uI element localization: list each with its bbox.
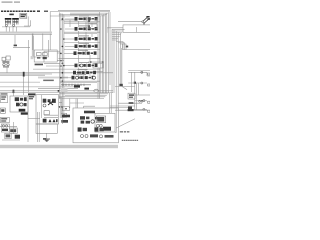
box J dark: [15, 135, 20, 139]
wire verticals x37-40: [37, 112, 39, 142]
wire left horizontal: [13, 46, 30, 48]
wire left branch: [14, 35, 16, 47]
wire M1 drop: [6, 68, 8, 73]
box lamps group1: [128, 70, 150, 72]
transistor row TR5: [64, 51, 97, 55]
junction blob x13: [13, 90, 15, 93]
wire module corner y16: [50, 15, 70, 17]
wire under transistors: [2, 26, 30, 28]
wire y88: [38, 87, 78, 89]
wire gray band mid: [38, 77, 68, 79]
central module frame left verticals: [59, 12, 64, 118]
bottom gray band: [0, 145, 118, 148]
regulator box right: [128, 93, 135, 99]
wire verticals under switches: [132, 72, 139, 110]
wire y110.2 long: [115, 109, 150, 111]
transistor Q2 group: [12, 18, 19, 25]
boxes P3: [96, 116, 105, 123]
wire drop A: [32, 34, 34, 50]
transistor row TR6: [65, 64, 98, 68]
wire row6 line: [33, 68, 100, 70]
wire drops from transistors: [6, 27, 16, 32]
wire y126.7: [0, 126, 17, 128]
transistor row TR3: [65, 37, 98, 41]
connector pin boxes: [88, 19, 97, 29]
junction blob: [23, 72, 25, 77]
wire vertical x41: [40, 95, 42, 118]
wire drop x76-77: [76, 99, 77, 109]
cluster P6: [78, 127, 82, 131]
resistor network row: [61, 84, 91, 90]
cluster P2: [80, 116, 98, 123]
switch row2: [128, 82, 150, 86]
battery cluster: [1, 124, 9, 132]
module relay box bottom-left A: [1, 96, 8, 103]
transistor row TR7: [64, 71, 97, 75]
title text top-left: [2, 2, 21, 3]
wire vertical x28 low: [27, 100, 29, 142]
switch row3: [135, 100, 150, 104]
connector hatch G: [62, 115, 70, 118]
wire bus lower edge: [0, 34, 52, 36]
label above box A: [1, 93, 8, 94]
ground symbol: [43, 138, 50, 141]
small box E right of module D: [61, 113, 66, 117]
wire horizontal y51: [44, 50, 60, 52]
transistor row TR8: [62, 76, 96, 80]
small box C: [1, 108, 6, 113]
wire row2 lines: [64, 32, 100, 33]
bundle end blob: [119, 84, 122, 86]
wire long right y49.6: [122, 44, 150, 50]
wire row5 line: [59, 57, 101, 59]
wire bus y72.8: [0, 72, 113, 74]
junction dot bus: [58, 90, 60, 92]
terminal circles: [139, 100, 143, 102]
wire vertical x23.5: [23, 77, 25, 95]
meter box F: [63, 107, 70, 111]
switch row4: [130, 108, 150, 112]
text right-bottom row2: [122, 139, 139, 141]
circles P4: [96, 124, 102, 127]
wire main gray bus band left: [0, 32, 52, 34]
junction box right of module: [88, 61, 103, 71]
row labels: [76, 16, 89, 75]
wire PS1 stubs: [44, 53, 64, 66]
transistor row TR1: [65, 17, 98, 21]
box I: [5, 133, 11, 138]
label CONN: [61, 120, 68, 123]
diode D2: [13, 24, 15, 26]
text right-bottom row1: [120, 131, 130, 133]
box H: [9, 128, 17, 133]
central module bottom: [59, 98, 105, 100]
junction blob right: [129, 102, 134, 104]
transistor row TR2: [65, 27, 98, 31]
wire row8 lines: [60, 81, 100, 82]
node box corner right of relay: [24, 17, 31, 27]
wire termination lines: [59, 94, 109, 97]
junction blob under verticals: [128, 109, 134, 111]
label 12VDC: [35, 64, 43, 66]
connector oval: [94, 89, 99, 92]
wire vertical bus column: [101, 12, 121, 133]
regulator box PS1: [34, 50, 57, 62]
wire y140: [2, 139, 20, 141]
cluster P1: [84, 111, 95, 114]
wire switch link: [107, 28, 123, 33]
fuse stack left: [1, 117, 10, 122]
junction dots module left: [60, 18, 65, 91]
cluster P7: [94, 127, 98, 131]
wire bus y75.2: [0, 74, 45, 76]
wire left drop from bus: [49, 12, 51, 50]
label under band: [43, 80, 54, 82]
switch S1 top right: [118, 16, 150, 24]
wire fan corners right: [112, 29, 126, 49]
wire y118.7: [28, 118, 40, 120]
wire y86.4: [115, 85, 135, 87]
cluster P5: [103, 127, 111, 131]
wire horizontal y57: [32, 56, 48, 58]
bottom module outer box: [73, 108, 118, 143]
module M1 left small: [2, 56, 10, 67]
wire top bus 2: [70, 12, 109, 14]
wire drop to ground: [46, 133, 48, 139]
inline component dark: [74, 85, 80, 87]
wire y103: [118, 102, 142, 104]
wire feed drops: [110, 93, 112, 108]
wire vertical pair left module: [32, 34, 33, 57]
switch row1: [128, 71, 150, 76]
wire corner feed bottom module: [84, 106, 96, 108]
wire vertical x13: [12, 91, 14, 97]
wire bus y92.2: [0, 91, 113, 93]
inline component right: [128, 107, 132, 110]
label 2 corner: [126, 46, 128, 48]
bottom module inner box: [95, 113, 115, 132]
wire y86: [0, 86, 78, 88]
wire to meter box: [58, 103, 84, 108]
wire vertical x44: [43, 51, 45, 62]
box K below module D: [36, 124, 57, 133]
wire row4 line: [64, 48, 100, 50]
wire vertical x28: [27, 40, 29, 92]
wire verticals center low: [60, 99, 61, 119]
wire drop B: [42, 34, 44, 50]
label TRA: [29, 96, 34, 97]
wire vertical x13.3b: [12, 122, 14, 134]
box right top: [123, 25, 151, 33]
wire drop x69.8: [69, 99, 71, 109]
wire bundle diagonal: [122, 86, 128, 89]
header label row: [1, 10, 48, 12]
transistor row TR4: [65, 44, 98, 48]
wire bus y90.5: [0, 90, 113, 92]
wire top bus 0: [58, 9, 110, 11]
wire row1 lines: [64, 22, 100, 23]
wire top bus 4: [70, 15, 106, 17]
wire inter-row verticals: [79, 21, 93, 76]
wire top bus outer: [50, 11, 110, 13]
box right mid: [135, 94, 150, 96]
transistor Q1 group: [5, 18, 12, 25]
resistor R1 tick: [14, 45, 17, 47]
circles row P8: [81, 134, 114, 138]
IC U1 label: [9, 14, 13, 16]
diode D1: [5, 24, 7, 26]
module box D center-left: [36, 95, 59, 124]
wire top bus 3: [70, 14, 107, 16]
wire module corner y20: [60, 20, 75, 27]
junction dots PS1: [60, 60, 63, 67]
wire gray bundle bar: [120, 48, 123, 85]
module box B bottom-left: [10, 96, 28, 112]
wire y82: [0, 81, 40, 83]
wire module D inner lines: [44, 115, 62, 124]
wire row3 line: [64, 41, 100, 43]
wire top feeds right module: [110, 106, 135, 113]
wire module D to verticals: [59, 97, 62, 102]
junction dots row2: [134, 82, 136, 84]
label BAT: [21, 113, 28, 115]
relay K1 gray box: [20, 13, 27, 18]
wire bus y74: [0, 73, 52, 75]
leader diagonal: [116, 119, 135, 128]
label gray tab: [31, 56, 34, 59]
wire module top edge: [59, 14, 100, 16]
central module right verticals: [98, 12, 100, 99]
label MAX dark: [28, 93, 36, 95]
wire vertical x48: [48, 40, 50, 57]
gray tab on bus: [61, 88, 68, 92]
